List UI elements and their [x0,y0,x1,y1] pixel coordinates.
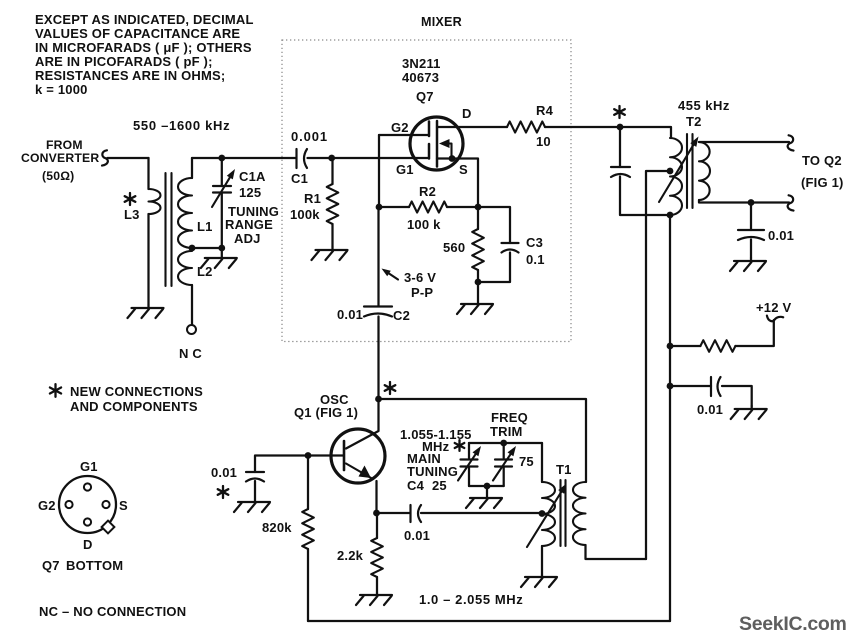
svg-text:FREQ: FREQ [491,410,528,425]
wire T2 secondary top to Q2 [699,141,789,143]
inductor L1 [178,178,192,248]
wire trimmer tank bottom [469,485,504,487]
node T2 secondary bottom junction [748,199,755,206]
node mixer output star junction [617,124,624,131]
label L3 [124,207,140,222]
ground at supply bypass [731,406,767,419]
svg-text:IN MICROFARADS ( μF ); OTHERS: IN MICROFARADS ( μF ); OTHERS [35,40,252,55]
resistor supply dropping [700,340,735,352]
svg-text:T1: T1 [556,462,572,477]
new-component star at T2 input [614,106,625,118]
mosfet Q7 gate bars [428,122,431,159]
transformer T1 adjust arrow [527,484,567,548]
wire R2 to C2 [377,207,379,306]
connector squiggle to Q2 top [788,135,794,150]
wire Q1 emitter lead [375,481,377,513]
svg-text:C4: C4 [407,478,425,493]
svg-text:G1: G1 [80,459,98,474]
svg-text:1.0 – 2.055 MHz: 1.0 – 2.055 MHz [419,592,523,607]
svg-text:100 k: 100 k [407,217,441,232]
wire L1 top lead [191,158,193,178]
svg-text:FROM: FROM [46,138,83,152]
capacitor C3 0.1 branch [478,207,519,282]
resistor R1 100k [327,158,339,247]
svg-text:+12 V: +12 V [756,300,791,315]
ground below 2.2k [356,593,392,605]
node tank bottom junction [484,483,491,490]
label +12 V [756,300,791,315]
svg-text:Q7: Q7 [42,558,60,573]
node C1-R1 junction [328,155,335,162]
node supply junction [667,343,674,350]
label N C [179,346,202,361]
label 3-6 V P-P [404,270,436,300]
svg-text:k = 1000: k = 1000 [35,82,88,97]
transformer T1 core [561,480,566,546]
svg-text:3-6 V: 3-6 V [404,270,436,285]
label R1 100k [290,191,321,222]
Q7 pin D [84,518,91,525]
wire D lead [437,126,507,128]
Q7 tab marker [102,521,115,534]
label L1 [197,219,213,234]
wire osc junction to T1 secondary [379,399,587,482]
svg-text:VALUES OF CAPACITANCE ARE: VALUES OF CAPACITANCE ARE [35,26,240,41]
wire Q1 base lead [308,454,343,456]
new-component star near L3 [125,193,136,205]
label 820k [262,520,292,535]
wire T2 secondary bottom to Q2 [699,200,789,203]
label R4 10 [536,103,554,149]
svg-text:T2: T2 [686,114,702,129]
label 0.01 at base cap [211,465,237,480]
Q7 pin G2 [65,501,72,508]
wire R4 to T2 [545,127,671,138]
ground below T2 secondary cap [730,258,766,271]
wire L3 bottom lead [147,214,149,305]
wire tank to T1 primary [541,443,543,482]
svg-text:G2: G2 [38,498,56,513]
trimmer capacitor C1A [213,186,231,193]
label 3N211 40673 Q7 [402,56,441,104]
ground below base cap [234,481,270,512]
wire base to bypass cap [255,456,308,473]
node tank top junction [218,155,225,162]
node Q1 base junction [305,452,312,459]
svg-text:Q7: Q7 [416,89,434,104]
node R2 right junction [475,204,482,211]
mixer stage label [421,15,462,29]
Q7 pin S [102,501,109,508]
svg-text:0.01: 0.01 [697,402,723,417]
node bypass junction [667,383,674,390]
mosfet Q7 circle [410,117,463,170]
svg-text:0.01: 0.01 [211,465,237,480]
transformer T2 secondary [699,142,710,200]
transformer T2 primary [670,138,682,215]
label OSC Q1 (FIG 1) [294,392,358,420]
wire C2 to oscillator [377,317,379,400]
wire L1L2 junction to C1A bottom [192,247,222,249]
svg-text:75: 75 [519,454,534,469]
svg-text:25: 25 [432,478,447,493]
svg-text:L2: L2 [197,264,213,279]
transistor Q1 base bar [343,441,346,470]
svg-text:C3: C3 [526,235,543,250]
svg-text:TUNING: TUNING [407,464,458,479]
legend NEW CONNECTIONS AND COMPONENTS [70,384,203,414]
transformer T2 adjust arrow [659,137,699,203]
label FREQ TRIM 75 [490,410,534,469]
transistor Q1 emitter [346,464,372,479]
connector squiggle to Q2 bottom [788,195,794,210]
resistor 2.2k [371,513,383,593]
resistor 560 [472,207,484,282]
node R2 left junction [376,204,383,211]
label L2 [197,264,213,279]
annotation arrow 3-6V P-P [382,269,399,280]
label S [459,162,468,177]
svg-text:S: S [459,162,468,177]
svg-text:CONVERTER: CONVERTER [21,151,99,165]
ground at C1A bottom [201,248,237,268]
capacitor T2 tuning [611,127,670,215]
ground below L3 [128,305,164,318]
wire G2 lead [379,134,428,136]
svg-text:R2: R2 [419,184,436,199]
node Q1 emitter junction [373,510,380,517]
capacitor C1 0.001 [297,149,308,168]
svg-text:R1: R1 [304,191,321,206]
wire S lead [437,159,478,208]
svg-text:(FIG 1): (FIG 1) [801,175,844,190]
label 560 [443,240,465,255]
capacitor C2 0.01 [364,307,392,317]
svg-text:550 –1600 kHz: 550 –1600 kHz [133,118,230,133]
wire input to L3 [107,157,148,159]
wire drain supply vertical [669,215,671,621]
svg-text:0.01: 0.01 [768,228,794,243]
new-component star at osc junction [385,382,396,394]
node T2 primary tap [667,168,674,175]
svg-text:0.01: 0.01 [404,528,430,543]
svg-text:SeekIC.com: SeekIC.com [739,613,847,635]
wire T2 tap to T1 secondary [646,171,670,559]
capacitor 0.01 osc base [246,472,264,482]
label C3 0.1 [526,235,545,267]
svg-text:ADJ: ADJ [234,231,261,246]
wire tank top [192,157,296,159]
legend star [50,384,61,397]
svg-text:40673: 40673 [402,70,439,85]
node T1 primary tap [539,510,546,517]
resistor R2 100k [379,202,478,213]
node 560-C3 bottom junction [475,279,482,286]
wire T1 primary to ground [541,546,543,575]
node L1-L2 junction [189,245,196,252]
label TO Q2 (FIG 1) [801,153,844,190]
transformer core T-ant [166,173,172,286]
svg-text:L1: L1 [197,219,213,234]
svg-text:C2: C2 [393,308,410,323]
ground below R1 [312,247,348,260]
label 0.01 C2 [337,307,410,323]
label 455 kHz T2 [678,98,730,129]
wire C1 to gate G1 [308,157,429,159]
note text block [35,12,254,97]
wire T1 secondary bottom [586,545,647,559]
svg-text:10: 10 [536,134,551,149]
ground below 560 [457,282,493,314]
svg-text:Q1 (FIG 1): Q1 (FIG 1) [294,405,358,420]
svg-text:2.2k: 2.2k [337,548,364,563]
trimmer C1A arrow [212,169,235,207]
label 2.2k [337,548,364,563]
svg-text:0.1: 0.1 [526,252,545,267]
wire bottom return [308,620,670,622]
input connector squiggle [102,150,108,165]
node 75 top junction [500,440,507,447]
svg-text:EXCEPT AS INDICATED, DECIMAL: EXCEPT AS INDICATED, DECIMAL [35,12,254,27]
wire L3 top lead [147,158,149,189]
svg-text:P-P: P-P [411,285,433,300]
wire L2 bottom lead [191,285,193,325]
mixer dashed box [282,40,571,342]
wire supply resistor to rail [670,345,700,347]
Q7 bottom view circle [59,476,116,533]
svg-text:0.001: 0.001 [291,129,328,144]
svg-text:100k: 100k [290,207,320,222]
new-component star at base cap [218,486,229,498]
band label 550-1600 kHz [133,118,230,133]
label 0.01 supply bypass [697,402,723,417]
svg-text:0.01: 0.01 [337,307,363,322]
svg-text:BOTTOM: BOTTOM [66,558,123,573]
svg-text:D: D [462,106,472,121]
ground below T1 [521,575,557,587]
transformer T1 secondary [573,482,586,545]
label 0.001 C1 [291,129,328,186]
node oscillator junction [375,396,382,403]
connector squiggle +12V [767,316,783,322]
svg-text:L3: L3 [124,207,140,222]
label 1.055-1.155 MHz MAIN TUNING C4 25 [400,427,472,493]
svg-text:TRIM: TRIM [490,424,523,439]
svg-text:560: 560 [443,240,465,255]
label T1 [556,462,572,477]
resistor R4 10 [507,122,545,133]
capacitor 0.01 at T2 secondary [738,203,764,259]
trimmer 75 freq trim [493,443,516,486]
svg-text:125: 125 [239,185,261,200]
label R2 100 k [407,184,441,232]
label D [462,106,472,121]
resistor 820k [302,456,314,622]
svg-text:G1: G1 [396,162,414,177]
svg-text:3N211: 3N211 [402,56,441,71]
svg-text:D: D [83,537,93,552]
transformer T1 primary [542,482,555,546]
node Q7 source-substrate [449,155,456,162]
Q7 bottom labels [38,459,128,573]
inductor L3 [149,189,161,214]
label 0.01 emitter cap [404,528,430,543]
ground below trimmer tank [466,486,502,508]
svg-text:N C: N C [179,346,202,361]
capacitor 0.01 emitter coupling [377,505,543,522]
node C1A bottom junction [218,245,225,252]
label G2 [391,120,409,135]
NC terminal circle [187,325,196,334]
Q7 pin G1 [84,483,91,490]
legend NC - NO CONNECTION [39,604,186,619]
svg-text:820k: 820k [262,520,292,535]
svg-text:RESISTANCES ARE IN OHMS;: RESISTANCES ARE IN OHMS; [35,68,225,83]
svg-text:C1: C1 [291,171,308,186]
trimmer C4 main tuning [458,443,481,486]
input label FROM CONVERTER (50 ohm) [21,138,99,183]
node T2 primary bottom [667,212,674,219]
transformer T2 core [687,134,693,208]
new-component star at C4 [455,440,465,451]
wire gate bias vertical [378,135,380,207]
svg-text:ARE IN PICOFARADS ( pF );: ARE IN PICOFARADS ( pF ); [35,54,213,69]
trimmer C1A leads [221,158,223,248]
svg-text:NEW CONNECTIONS: NEW CONNECTIONS [70,384,203,399]
svg-text:S: S [119,498,128,513]
label 0.01 T2 secondary [768,228,794,243]
svg-text:R4: R4 [536,103,554,118]
svg-text:C1A: C1A [239,169,266,184]
svg-text:NC – NO CONNECTION: NC – NO CONNECTION [39,604,186,619]
mosfet Q7 channel bar [436,121,439,167]
svg-text:TO Q2: TO Q2 [802,153,842,168]
svg-text:455 kHz: 455 kHz [678,98,730,113]
mosfet Q7 substrate arrow [439,139,452,157]
capacitor 0.01 supply bypass [670,377,752,406]
svg-text:AND COMPONENTS: AND COMPONENTS [70,399,198,414]
label G1 [396,162,414,177]
transistor Q1 circle [331,429,385,483]
label C1A 125 TUNING RANGE ADJ [225,169,279,246]
wire trimmer tank top [469,442,542,444]
inductor L2 [178,251,192,285]
svg-text:MIXER: MIXER [421,15,462,29]
watermark SeekIC.com [739,613,847,635]
wire +12V lead [735,320,773,346]
svg-text:G2: G2 [391,120,409,135]
wire Q1 collector [346,399,379,449]
svg-text:RANGE: RANGE [225,217,273,232]
label 1.0-2.055 MHz [419,592,523,607]
svg-text:(50Ω): (50Ω) [42,169,74,183]
